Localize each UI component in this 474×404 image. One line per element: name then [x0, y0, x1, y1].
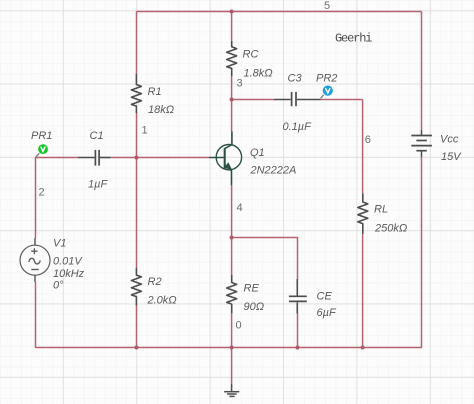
wire RC bottom to node 3 to collector [231, 76, 233, 131]
svg-text:6µF: 6µF [317, 307, 337, 319]
resistor RL [358, 193, 368, 234]
junction top rail / RC branch [230, 9, 234, 13]
resistor RC [227, 41, 237, 76]
wire CE bottom to bottom rail [297, 314, 299, 349]
wire R2 bottom to bottom rail [136, 306, 138, 349]
wire C1 to node 1 junction and base [111, 157, 209, 159]
wire emitter to node 4 [231, 185, 233, 237]
wire left branch V1 upper [35, 157, 37, 238]
svg-text:15V: 15V [441, 151, 462, 163]
capacitor C1 [78, 150, 111, 166]
svg-text:RC: RC [243, 49, 259, 61]
svg-text:0: 0 [236, 320, 242, 332]
svg-text:2.0kΩ: 2.0kΩ [147, 295, 177, 307]
svg-text:Vcc: Vcc [440, 133, 459, 145]
wire node 6 down to RL [362, 100, 364, 194]
wire left branch V1 lower [35, 282, 37, 348]
svg-text:10kHz: 10kHz [53, 268, 85, 280]
battery Vcc [411, 130, 432, 157]
wire PR2 node to corner node 6 [321, 99, 363, 101]
svg-text:C3: C3 [288, 72, 303, 84]
svg-text:PR2: PR2 [316, 72, 337, 84]
wire R1 bottom to node1 to R2 top [136, 113, 138, 268]
wire RL bottom to bottom rail [362, 234, 364, 348]
svg-text:R2: R2 [148, 276, 162, 288]
svg-text:CE: CE [317, 291, 333, 303]
wire node 4 to RE [231, 238, 233, 276]
junction bottom CE [295, 345, 299, 349]
svg-text:6: 6 [365, 134, 371, 146]
probe PR2 [321, 86, 333, 99]
svg-text:0.01V: 0.01V [53, 256, 83, 268]
wire bottom rail to ground [231, 348, 233, 384]
capacitor CE [289, 279, 307, 314]
resistor RE [227, 275, 237, 313]
junction bottom R2 [134, 345, 138, 349]
resistor R2 [131, 268, 141, 306]
svg-text:0.1µF: 0.1µF [283, 121, 313, 133]
wire right rail lower (battery to bottom) [421, 157, 423, 347]
wire bottom rail node 0 [36, 347, 423, 349]
junction node 4 [230, 235, 234, 239]
svg-text:2N2222A: 2N2222A [250, 164, 297, 176]
svg-text:Geerhi: Geerhi [335, 32, 372, 46]
svg-text:18kΩ: 18kΩ [148, 104, 174, 116]
wire R1 branch top [136, 12, 138, 75]
svg-text:1.8kΩ: 1.8kΩ [244, 67, 273, 79]
transistor Q1 [209, 132, 242, 186]
junction bottom ground [230, 345, 234, 349]
svg-text:250kΩ: 250kΩ [374, 223, 407, 235]
ground [224, 384, 239, 397]
svg-text:90Ω: 90Ω [244, 301, 265, 313]
svg-text:1µF: 1µF [88, 179, 108, 191]
wire RE bottom to bottom rail [231, 313, 233, 348]
junction bottom RL [361, 345, 365, 349]
svg-text:R1: R1 [148, 86, 162, 98]
svg-text:3: 3 [237, 78, 243, 90]
svg-text:2: 2 [39, 187, 45, 199]
svg-text:RE: RE [244, 283, 260, 295]
probe PR1 [36, 144, 48, 157]
svg-text:PR1: PR1 [31, 130, 52, 142]
svg-text:Q1: Q1 [250, 147, 265, 159]
svg-text:RL: RL [374, 204, 388, 216]
capacitor C3 [274, 92, 321, 106]
svg-text:4: 4 [237, 202, 243, 214]
svg-text:C1: C1 [90, 130, 104, 142]
resistor R1 [131, 74, 141, 113]
AC source V1 [20, 238, 50, 282]
svg-text:0°: 0° [53, 280, 64, 292]
wire RC branch top [231, 12, 233, 42]
svg-text:V1: V1 [53, 237, 66, 249]
svg-text:1: 1 [142, 125, 148, 137]
wire top rail node 5 [137, 11, 422, 13]
wire node 3 to C3 [232, 99, 274, 101]
wire node 4 branch to CE [232, 238, 298, 280]
svg-text:5: 5 [324, 0, 330, 12]
junction node 1 [134, 155, 138, 159]
wire input node 2 to C1 [36, 157, 78, 159]
wire right rail upper (to Vcc battery) [421, 12, 423, 131]
junction node 3 [230, 97, 234, 101]
